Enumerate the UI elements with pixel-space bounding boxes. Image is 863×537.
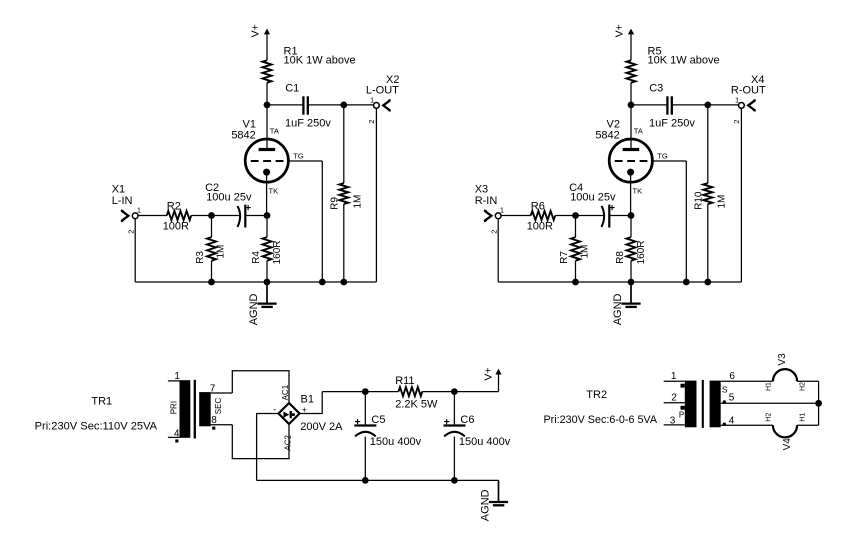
connector X1 L-IN bbox=[132, 213, 138, 219]
wire node to coupling cap bbox=[631, 104, 666, 106]
wire cap to cathode node bbox=[246, 215, 267, 217]
wire V4 to corner bbox=[797, 424, 819, 426]
wire bridge minus to ground rail bbox=[257, 414, 279, 481]
wire pin6 to V3 heater bbox=[721, 380, 773, 382]
svg-text:X3: X3 bbox=[475, 184, 488, 196]
junction load resistor / rail bbox=[340, 279, 347, 286]
wire resistor to node bbox=[555, 215, 575, 217]
wire cap to output jack bbox=[673, 104, 739, 106]
connector X3 R-IN bbox=[495, 213, 501, 219]
resistor R7 1M input load bbox=[571, 237, 580, 261]
node cathode / C / Rk bbox=[264, 212, 271, 219]
svg-text:V3: V3 bbox=[777, 353, 788, 366]
svg-text:V1: V1 bbox=[243, 118, 256, 130]
svg-text:V+: V+ bbox=[614, 24, 626, 37]
ground AGND (PSU) bbox=[498, 479, 500, 481]
wire node down to R10 bbox=[707, 105, 709, 183]
TR2 primary polarity marks bbox=[681, 384, 685, 388]
TR1 pin 7 stub bbox=[211, 392, 233, 394]
svg-text:R11: R11 bbox=[395, 375, 414, 387]
svg-text:100R: 100R bbox=[163, 220, 189, 232]
svg-text:150u 400v: 150u 400v bbox=[370, 436, 422, 448]
svg-text:1M: 1M bbox=[215, 245, 226, 259]
svg-text:V+: V+ bbox=[250, 24, 262, 37]
wire to R4 bbox=[266, 216, 268, 238]
svg-text:5: 5 bbox=[729, 392, 735, 403]
junction C6 bbox=[451, 388, 458, 395]
polarity + bbox=[610, 205, 615, 210]
svg-text:1M: 1M bbox=[352, 195, 363, 209]
wire to rail bbox=[630, 261, 632, 282]
PSU ground rail bbox=[257, 479, 499, 481]
svg-text:1: 1 bbox=[370, 95, 374, 104]
polarity + bbox=[246, 205, 251, 210]
V+ supply arrow (PSU) bbox=[495, 369, 501, 375]
svg-text:V4: V4 bbox=[782, 438, 793, 451]
heater V3 bbox=[773, 369, 797, 381]
node output / load resistor bbox=[704, 102, 711, 109]
B+ rail right bbox=[422, 391, 498, 393]
svg-text:H2: H2 bbox=[766, 413, 773, 422]
wire AC2: TR1 pin8 to bridge bottom bbox=[232, 424, 289, 459]
capacitor C6 150u 400v bbox=[453, 392, 455, 425]
svg-text:TR2: TR2 bbox=[586, 389, 607, 401]
svg-text:8: 8 bbox=[211, 415, 217, 426]
svg-text:R3: R3 bbox=[195, 251, 206, 264]
wire V+ to R top bbox=[266, 34, 268, 60]
wire R bottom to anode node bbox=[630, 83, 632, 105]
wire jack to input resistor bbox=[138, 215, 167, 217]
resistor R2 100R input bbox=[167, 211, 191, 220]
svg-text:L-IN: L-IN bbox=[112, 195, 133, 207]
svg-text:100u 25v: 100u 25v bbox=[206, 192, 252, 204]
wire anode pin bbox=[266, 105, 268, 148]
transformer TR1 bbox=[180, 380, 191, 438]
wire jack pin2 down to rail bbox=[134, 219, 136, 282]
svg-text:SEC: SEC bbox=[214, 398, 223, 415]
wire to R3 bbox=[211, 216, 213, 238]
wire V+ to R top bbox=[630, 34, 632, 60]
capacitor C4 100u 25v electrolytic bbox=[602, 206, 605, 227]
wire jack to input resistor bbox=[501, 215, 531, 217]
svg-text:5842: 5842 bbox=[595, 130, 619, 142]
svg-text:PRI: PRI bbox=[170, 401, 179, 414]
svg-text:AGND: AGND bbox=[248, 293, 260, 325]
connector X4 R-OUT bbox=[739, 103, 745, 109]
svg-text:2: 2 bbox=[732, 120, 741, 124]
svg-text:2.2K 5W: 2.2K 5W bbox=[395, 398, 438, 410]
wire pin4 to V4 heater bbox=[721, 424, 773, 426]
svg-text:6: 6 bbox=[729, 371, 735, 382]
svg-text:X1: X1 bbox=[112, 184, 125, 196]
capacitor C3 1uF 250v coupling bbox=[666, 96, 668, 114]
ground rail wire bbox=[498, 281, 741, 283]
heater V4 bbox=[773, 425, 797, 437]
TR2 pin 3 stub bbox=[664, 424, 685, 426]
svg-text:R-IN: R-IN bbox=[475, 195, 498, 207]
wire bridge plus up to B+ rail bbox=[300, 392, 323, 414]
TR1 pin 1 stub bbox=[168, 380, 180, 382]
wire node to cap C4 bbox=[576, 215, 605, 217]
svg-text:1uF 250v: 1uF 250v bbox=[649, 117, 695, 129]
transformer TR2 bbox=[685, 381, 697, 428]
svg-text:R2: R2 bbox=[167, 201, 181, 213]
grid ground drop wire bbox=[321, 161, 323, 282]
wire node down to R9 bbox=[343, 105, 345, 183]
svg-text:V2: V2 bbox=[607, 118, 620, 130]
svg-text:160R: 160R bbox=[272, 240, 283, 264]
svg-text:TA: TA bbox=[270, 126, 279, 135]
capacitor C5 150u 400v bbox=[364, 392, 366, 425]
junction cathode resistor / rail bbox=[628, 279, 635, 286]
svg-text:2: 2 bbox=[489, 230, 498, 234]
wire to rail bbox=[575, 261, 577, 282]
svg-text:Pri:230V Sec:110V 25VA: Pri:230V Sec:110V 25VA bbox=[35, 420, 158, 432]
ground AGND bbox=[630, 282, 632, 303]
svg-text:H1: H1 bbox=[799, 413, 806, 422]
svg-text:C6: C6 bbox=[460, 414, 474, 426]
svg-text:TK: TK bbox=[269, 186, 279, 195]
connector X2 L-OUT bbox=[374, 103, 380, 109]
svg-text:5842: 5842 bbox=[231, 130, 255, 142]
svg-text:7: 7 bbox=[210, 383, 216, 394]
svg-text:100u 25v: 100u 25v bbox=[570, 192, 616, 204]
svg-text:TR1: TR1 bbox=[91, 396, 112, 408]
polarity + C6 bbox=[444, 419, 449, 424]
junction input load / rail bbox=[208, 279, 215, 286]
triode V1 5842 bbox=[245, 139, 288, 182]
wire to rail bbox=[343, 204, 345, 282]
junction grid wire / rail bbox=[319, 279, 326, 286]
resistor R3 1M input load bbox=[207, 237, 216, 261]
svg-text:R6: R6 bbox=[531, 201, 545, 213]
wire jack pin2 down to rail bbox=[497, 219, 499, 282]
node cathode / C / Rk bbox=[628, 212, 635, 219]
wire to rail bbox=[211, 261, 213, 282]
wire to V+ arrow bbox=[498, 374, 500, 391]
wire to R7 bbox=[575, 216, 577, 238]
node input divider bbox=[208, 212, 215, 219]
grid wire to ground drop bbox=[288, 160, 322, 162]
svg-text:C1: C1 bbox=[285, 82, 299, 94]
TR1 pin 8 stub bbox=[211, 424, 233, 426]
svg-text:P: P bbox=[679, 411, 684, 420]
TR2 pin 1 stub bbox=[664, 380, 685, 382]
TR1 secondary polarity mark bbox=[212, 427, 215, 430]
node anode/output junction bbox=[264, 102, 271, 109]
heater return vertical bbox=[818, 381, 820, 425]
svg-text:2: 2 bbox=[367, 120, 376, 124]
junction C5 ground bbox=[362, 477, 369, 484]
wire jack pin2 down to rail bbox=[740, 108, 742, 282]
svg-text:150u 400v: 150u 400v bbox=[459, 436, 511, 448]
junction load resistor / rail bbox=[704, 279, 711, 286]
svg-text:1: 1 bbox=[500, 206, 504, 215]
resistor R9 1M output load bbox=[339, 183, 348, 204]
wire pin5 center tap bbox=[721, 402, 819, 404]
B+ rail left bbox=[322, 391, 398, 393]
svg-text:100R: 100R bbox=[527, 220, 553, 232]
wire AC1: TR1 pin7 to bridge top bbox=[232, 371, 289, 403]
junction center tap bbox=[815, 400, 822, 407]
TR2 pin 2 stub bbox=[664, 402, 685, 404]
wire C6 to ground rail bbox=[453, 437, 455, 481]
wire node to coupling cap bbox=[267, 104, 302, 106]
bridge rectifier B1 bbox=[279, 403, 300, 424]
resistor R6 100R input bbox=[531, 211, 555, 220]
wire resistor to node bbox=[191, 215, 211, 217]
svg-text:TG: TG bbox=[657, 151, 668, 160]
junction input load / rail bbox=[572, 279, 579, 286]
resistor R10 1M output load bbox=[703, 183, 712, 204]
wire C5 to ground rail bbox=[364, 437, 366, 481]
svg-text:H2: H2 bbox=[799, 382, 806, 391]
V+ supply arrow (V2 channel) bbox=[628, 29, 634, 35]
svg-text:1: 1 bbox=[137, 206, 141, 215]
node anode/output junction bbox=[628, 102, 635, 109]
triode V2 5842 bbox=[609, 139, 652, 182]
svg-text:TG: TG bbox=[293, 151, 304, 160]
wire to rail bbox=[707, 204, 709, 282]
svg-text:10K 1W above: 10K 1W above bbox=[284, 55, 356, 67]
svg-text:TA: TA bbox=[634, 126, 643, 135]
wire to R8 bbox=[630, 216, 632, 238]
junction C5 bbox=[362, 388, 369, 395]
TR1 primary polarity mark bbox=[175, 439, 178, 442]
capacitor C1 1uF 250v coupling bbox=[302, 96, 304, 114]
svg-text:1M: 1M bbox=[579, 245, 590, 259]
node output / load resistor bbox=[340, 102, 347, 109]
svg-text:S: S bbox=[722, 384, 728, 394]
wire R bottom to anode node bbox=[266, 83, 268, 105]
V+ supply arrow (V1 channel) bbox=[264, 29, 270, 35]
svg-text:AC1: AC1 bbox=[281, 384, 290, 400]
svg-text:10K 1W above: 10K 1W above bbox=[648, 55, 720, 67]
svg-text:Pri:230V Sec:6-0-6 5VA: Pri:230V Sec:6-0-6 5VA bbox=[544, 414, 658, 426]
svg-text:TK: TK bbox=[633, 186, 643, 195]
svg-text:AGND: AGND bbox=[612, 293, 624, 325]
resistor R1 10K anode load bbox=[263, 60, 272, 82]
svg-text:B1: B1 bbox=[301, 393, 314, 405]
wire anode pin bbox=[630, 105, 632, 148]
junction cathode resistor / rail bbox=[264, 279, 271, 286]
node input divider bbox=[572, 212, 579, 219]
wire cap to output jack bbox=[309, 104, 374, 106]
TR2 pin4 polarity dot bbox=[723, 423, 726, 426]
svg-text:1M: 1M bbox=[716, 195, 727, 209]
resistor R5 10K anode load bbox=[627, 60, 636, 82]
svg-text:2: 2 bbox=[671, 393, 677, 404]
svg-text:160R: 160R bbox=[636, 240, 647, 264]
grid ground drop wire bbox=[685, 161, 687, 282]
polarity + C5 bbox=[355, 419, 360, 424]
TR1 pin 4 stub bbox=[168, 436, 180, 438]
wire to rail bbox=[266, 261, 268, 282]
TR2 pin5 polarity dot bbox=[723, 400, 726, 403]
capacitor C2 100u 25v electrolytic bbox=[238, 206, 241, 227]
junction C6 ground bbox=[451, 477, 458, 484]
svg-text:C3: C3 bbox=[649, 82, 663, 94]
svg-text:2: 2 bbox=[126, 230, 135, 234]
resistor R11 2.2K 5W bbox=[399, 387, 423, 396]
svg-text:V+: V+ bbox=[482, 367, 494, 380]
svg-text:1: 1 bbox=[735, 95, 739, 104]
svg-text:1: 1 bbox=[174, 371, 180, 382]
svg-text:AGND: AGND bbox=[479, 489, 491, 521]
wire cap to cathode node bbox=[610, 215, 631, 217]
ground AGND bbox=[266, 282, 268, 303]
junction grid wire / rail bbox=[683, 279, 690, 286]
svg-text:H1: H1 bbox=[766, 382, 773, 391]
svg-text:3: 3 bbox=[670, 415, 676, 426]
svg-text:R7: R7 bbox=[559, 251, 570, 264]
grid wire to ground drop bbox=[652, 160, 686, 162]
ground rail wire bbox=[135, 281, 376, 283]
resistor R4 160R cathode bbox=[263, 237, 272, 261]
svg-text:4: 4 bbox=[174, 428, 180, 439]
svg-text:R4: R4 bbox=[251, 251, 262, 264]
svg-text:1uF 250v: 1uF 250v bbox=[285, 117, 331, 129]
cathode wire down bbox=[266, 172, 268, 215]
cathode wire down bbox=[630, 172, 632, 215]
svg-text:C5: C5 bbox=[371, 414, 385, 426]
resistor R8 160R cathode bbox=[627, 237, 636, 261]
svg-text:R10: R10 bbox=[694, 191, 705, 210]
wire node to cap C2 bbox=[212, 215, 241, 217]
svg-text:R8: R8 bbox=[615, 251, 626, 264]
svg-text:1: 1 bbox=[671, 371, 677, 382]
svg-text:R9: R9 bbox=[330, 197, 341, 210]
svg-text:AC2: AC2 bbox=[283, 434, 292, 450]
wire V3 to corner bbox=[797, 380, 819, 382]
wire jack pin2 down to rail bbox=[375, 108, 377, 282]
svg-text:200V 2A: 200V 2A bbox=[300, 421, 343, 433]
